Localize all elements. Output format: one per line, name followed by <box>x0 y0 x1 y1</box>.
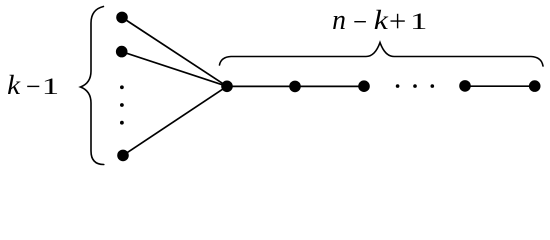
label n-k+1 <box>332 5 427 37</box>
vertex p3 <box>358 80 370 92</box>
edge hub to leaf 3 <box>123 86 227 155</box>
svg-text:n: n <box>332 5 346 37</box>
horizontal ellipsis dots <box>396 84 434 88</box>
label k-1 <box>7 71 59 101</box>
path edge vertex p4 to p5 <box>465 85 535 87</box>
path edge hub to vertex p2 and p3 <box>227 85 364 87</box>
svg-text:k: k <box>7 71 20 101</box>
vertical ellipsis dots <box>120 85 124 124</box>
vertex leaf 2 <box>116 46 128 58</box>
svg-text:k: k <box>374 5 389 36</box>
vertex leaf 3 <box>117 150 129 162</box>
svg-text:1: 1 <box>410 9 427 34</box>
vertex p4 <box>459 80 471 92</box>
edge hub to leaf 1 <box>122 17 227 86</box>
vertex p5 <box>529 80 541 92</box>
vertex leaf 1 <box>116 12 128 24</box>
vertex hub <box>221 81 233 93</box>
vertex p2 <box>289 81 301 93</box>
horizontal overbrace n-k+1 <box>220 43 544 67</box>
edge hub to leaf 2 <box>122 52 227 87</box>
svg-text:1: 1 <box>42 74 59 99</box>
left curly brace <box>81 7 104 165</box>
